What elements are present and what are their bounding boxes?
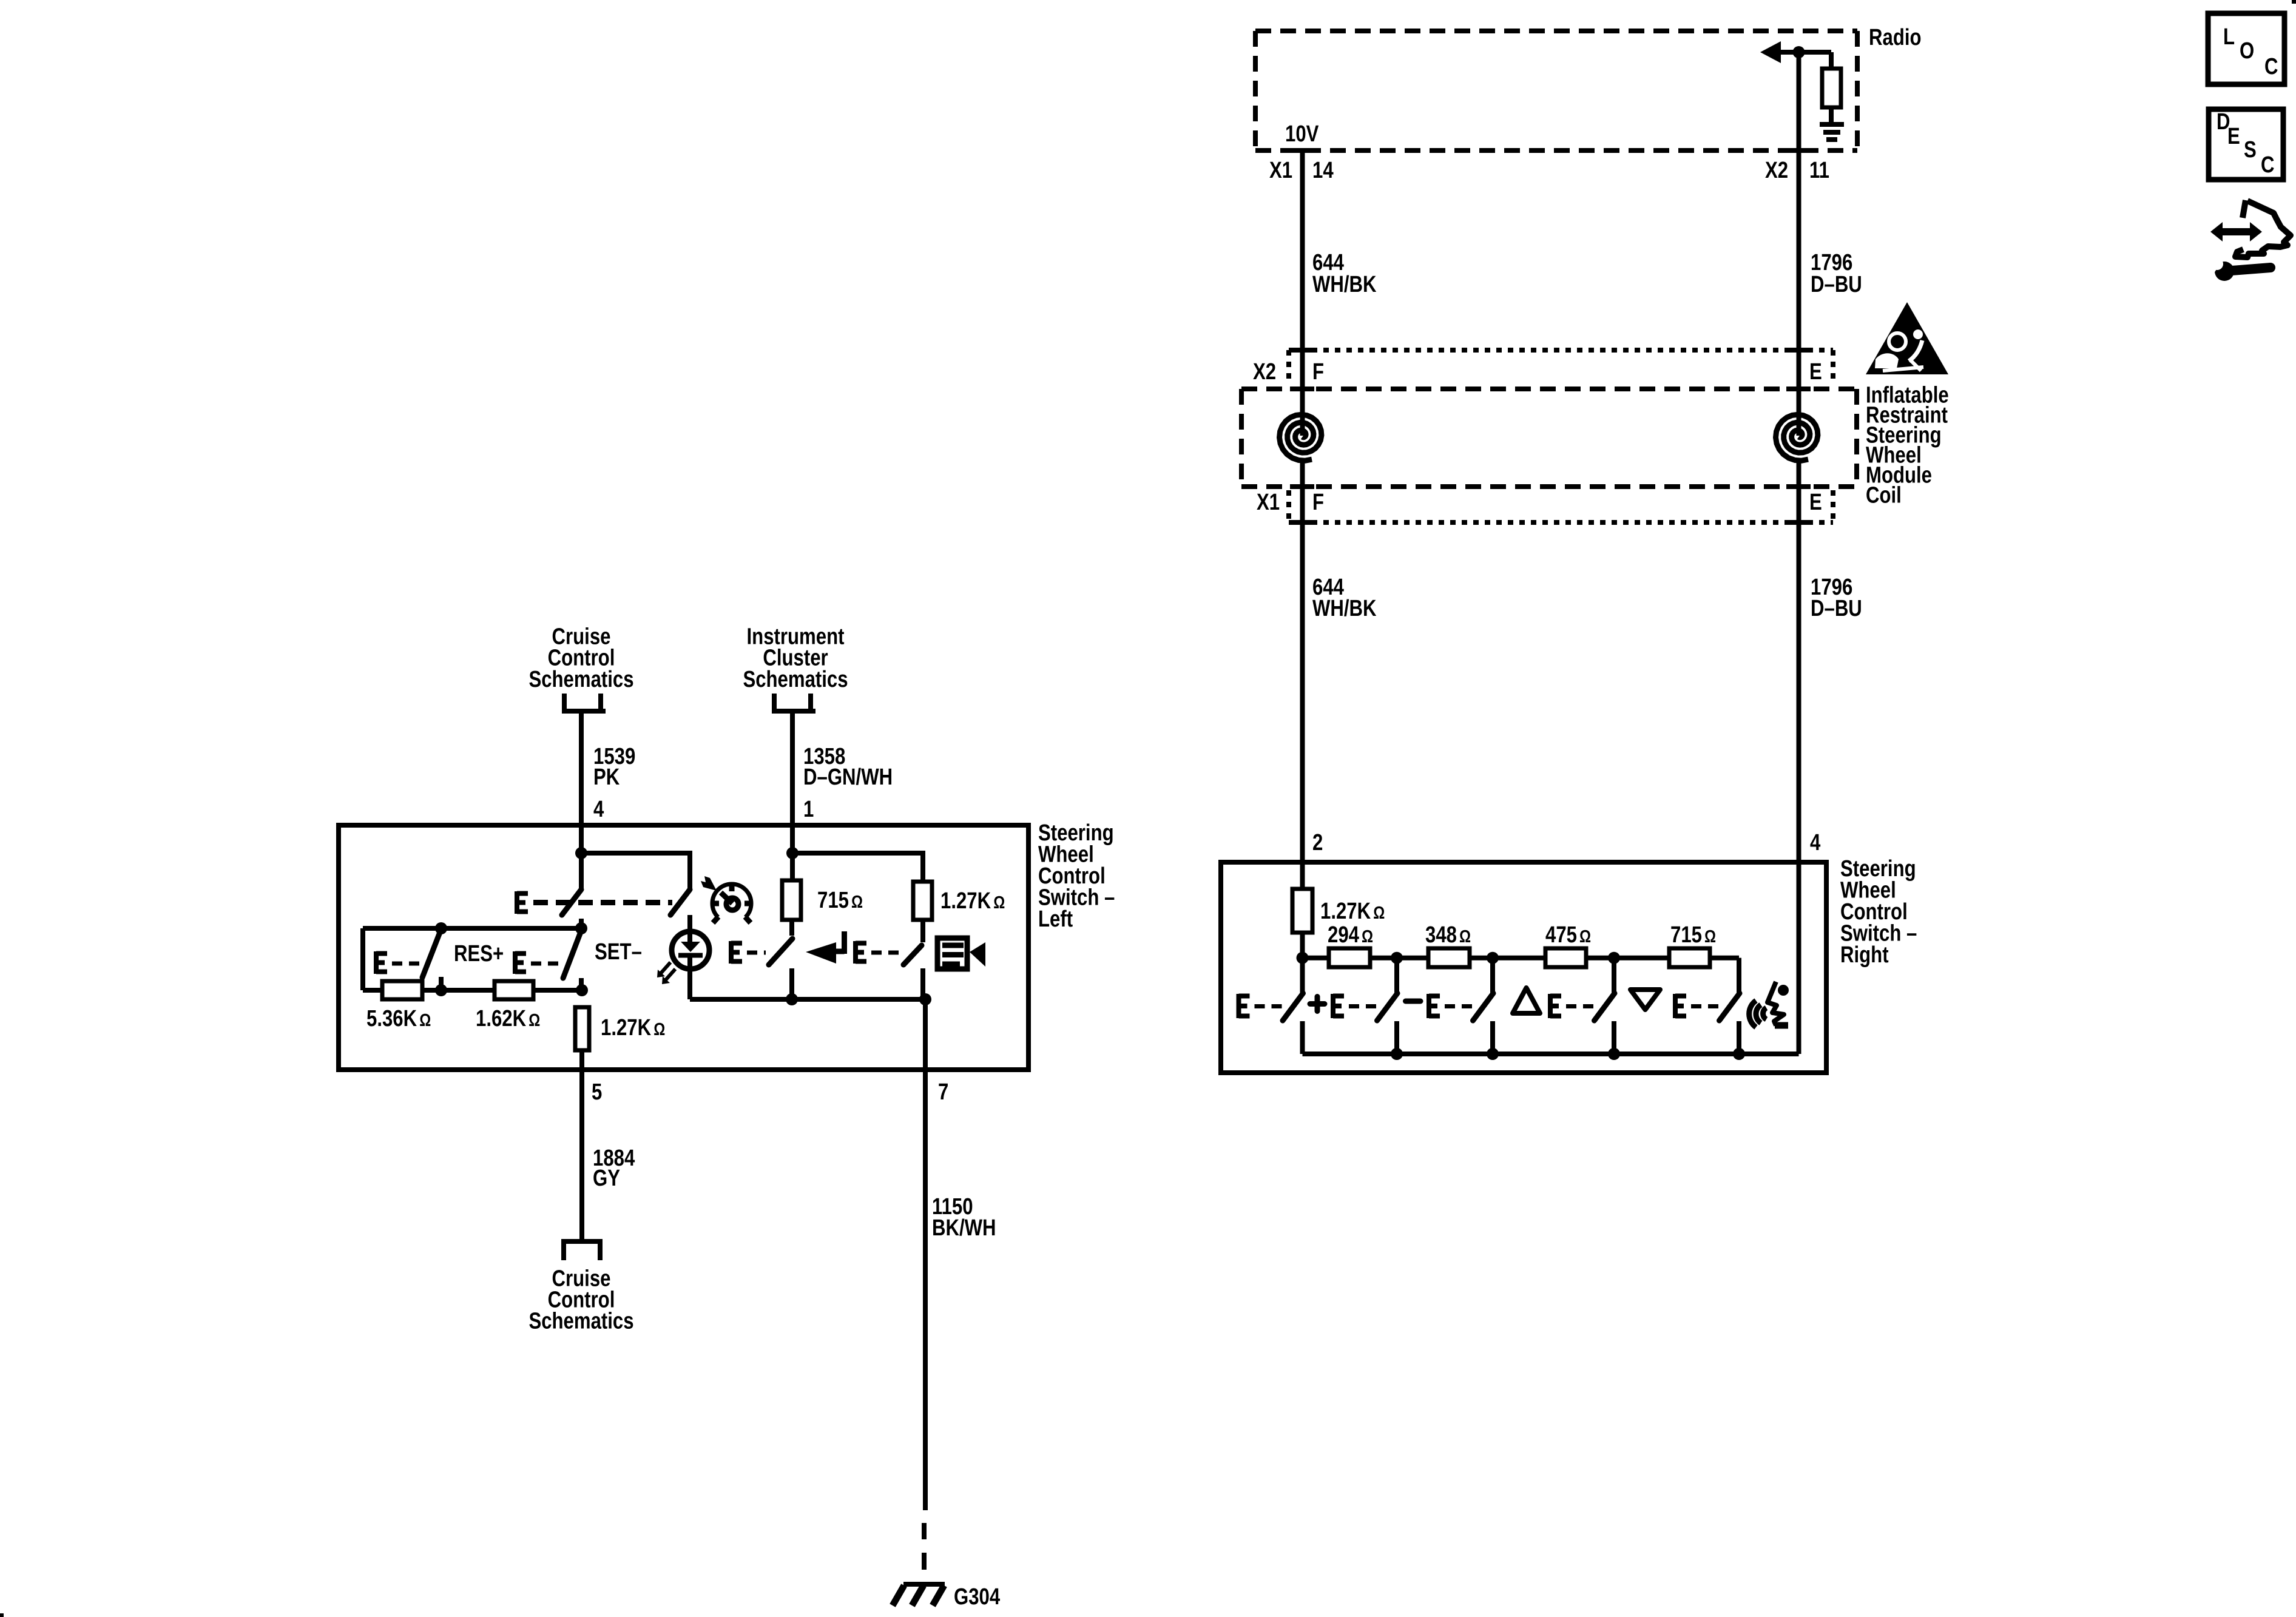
wire resistor to ground (1829, 107, 1834, 124)
airbag warning triangle (1866, 302, 1948, 374)
switch S5 voice: blade (1720, 993, 1740, 1021)
switch S5 voice: E actuator (1675, 994, 1686, 1018)
icon minus (volume down) (1406, 999, 1421, 1004)
wire 644 WH/BK segment 1 (radio X1-14 to coil X2-F) (1300, 150, 1305, 391)
svg-text:X1: X1 (1257, 490, 1280, 515)
svg-text:2: 2 (1312, 830, 1323, 856)
svg-text:294Ω: 294Ω (1328, 922, 1373, 948)
resistor 1.27K (mute branch) (913, 882, 932, 920)
Steering Wheel Control Switch - Right box (1221, 862, 1826, 1073)
wire resistor to bus (1300, 933, 1305, 957)
junction SET top (575, 922, 587, 934)
resistor 294 ohm (1329, 948, 1370, 967)
icon plus (volume up) (1310, 997, 1325, 1011)
svg-text:BK/WH: BK/WH (932, 1215, 996, 1241)
wire radio internal horizontal (1778, 50, 1831, 55)
junction radio node (1793, 46, 1805, 58)
svg-text:Right: Right (1840, 942, 1889, 968)
wire dashed segment to ground (922, 1523, 927, 1585)
switch mute blade (769, 939, 792, 965)
junction RES+ top (435, 922, 447, 934)
tick wire crossing lower dotted line (1290, 520, 1314, 525)
ground G304 (chassis) (893, 1584, 945, 1605)
icon triangle down (seek down) (1630, 990, 1660, 1010)
cruise master switch pole A blade (562, 890, 581, 915)
wire 1358 D-GN/WH (pin 1) (790, 711, 795, 825)
switch RES+ blade (422, 931, 441, 977)
switch S3 seek up: lower stub (1490, 1021, 1495, 1054)
svg-text:1.62KΩ: 1.62KΩ (476, 1006, 540, 1031)
wire 1796 D-BU segment 2 (coil E to right switch pin 4) (1797, 522, 1801, 1054)
bottom bus (right box) (1303, 1052, 1799, 1056)
svg-text:1: 1 (803, 797, 814, 822)
wire pin 7 inside box (923, 999, 928, 1070)
coil right (1776, 414, 1818, 461)
svg-text:1.27KΩ: 1.27KΩ (940, 888, 1005, 914)
svg-text:D–BU: D–BU (1811, 272, 1862, 297)
connector X2 (dotted) of coil module (1289, 348, 1833, 353)
resistor 348 ohm (1428, 948, 1470, 967)
tick wire crossing coil box bottom (1290, 484, 1314, 489)
svg-text:475Ω: 475Ω (1545, 922, 1591, 948)
switch S4 seek down: blade (1595, 993, 1615, 1021)
cruise master switch pole B blade (670, 890, 690, 915)
svg-text:GY: GY (593, 1166, 620, 1191)
DESC reference box (2209, 109, 2283, 180)
svg-text:Schematics: Schematics (743, 667, 848, 692)
arrow (signal to radio) (1760, 41, 1781, 63)
svg-text:715Ω: 715Ω (817, 888, 863, 913)
svg-text:Schematics: Schematics (528, 1309, 633, 1334)
switch S3 seek up: feed stub (1490, 958, 1495, 993)
resistor 1.62K (495, 981, 533, 999)
Radio box (dashed outline) (1255, 29, 1857, 33)
tick wire crossings on radio box bottom edge (1290, 148, 1314, 153)
wire 715 to switch (789, 920, 794, 936)
tick wire crossing coil box top (1290, 387, 1314, 391)
svg-text:1.27KΩ: 1.27KΩ (1320, 899, 1385, 924)
switch mute E actuator (731, 941, 742, 964)
svg-text:C: C (2261, 152, 2275, 178)
switch S4 seek down: lower stub (1612, 1021, 1616, 1054)
wire 1884 GY (pin 5 to cruise control schematics) (579, 1070, 584, 1239)
junction pin7 top (919, 993, 931, 1005)
top resistor bus (1303, 956, 1740, 960)
switch RES+ E actuator (376, 951, 387, 974)
switch S5 voice: feed stub (1737, 958, 1741, 993)
icon speedometer (cruise) (701, 876, 751, 923)
svg-text:Coil: Coil (1866, 483, 1902, 508)
junction n2 (1391, 952, 1403, 964)
svg-text:G304: G304 (954, 1584, 1001, 1610)
junction bottom n4 (1608, 1048, 1620, 1060)
cruise master switch pole A lower stub (579, 919, 584, 928)
icon mute/voice (bars with left triangle) (937, 938, 985, 969)
svg-text:5: 5 (592, 1079, 602, 1105)
icon triangle up (seek up) (1513, 988, 1540, 1013)
service/connector icon (double arrow, outline, wrench) (2203, 200, 2291, 281)
off-page bracket (cruise control) (562, 694, 606, 711)
switch S2 volume down: lower stub (1394, 1021, 1399, 1054)
wire 1539 PK (pin 4) (579, 711, 584, 825)
svg-text:7: 7 (938, 1079, 948, 1105)
svg-text:O: O (2240, 38, 2254, 64)
svg-text:E: E (1809, 490, 1822, 515)
junction bottom n3 (1487, 1048, 1499, 1060)
resistor radio pull-up (1822, 69, 1841, 107)
svg-text:E: E (1809, 359, 1822, 385)
wire 1.27K to switch (920, 920, 925, 942)
resistor 1.27K (cruise) (575, 1007, 589, 1050)
cruise master switch E actuator (517, 891, 528, 914)
switch S1 volume up: E actuator (1239, 994, 1250, 1018)
resistor 475 ohm (1545, 948, 1586, 967)
wire crossbar to second pole (581, 853, 690, 890)
cruise master gang dashed line (533, 900, 672, 905)
svg-text:4: 4 (1810, 830, 1821, 856)
svg-text:D–BU: D–BU (1811, 596, 1862, 621)
svg-text:5.36KΩ: 5.36KΩ (366, 1006, 431, 1031)
switch voice lower stub (920, 968, 925, 999)
svg-text:Left: Left (1038, 906, 1073, 932)
wire crossbar to 1.27K branch (792, 853, 923, 882)
switch S2 volume down: feed stub (1394, 958, 1399, 993)
page artifact bottom-left (0, 1613, 4, 1617)
switch S1 volume up: lower stub (1300, 1021, 1305, 1054)
junction SET bottom (576, 984, 588, 996)
wire 644 WH/BK segment 2 (coil X1-F to right switch pin 2) (1300, 522, 1305, 889)
wire through right coil (1797, 391, 1801, 436)
LOC reference box (2208, 13, 2284, 84)
wire to radio resistor (1829, 52, 1834, 69)
svg-text:E: E (2227, 124, 2240, 149)
tick wire crossing upper dotted line (1290, 348, 1314, 353)
svg-text:S: S (2244, 137, 2257, 163)
junction resistor mid (435, 984, 447, 996)
svg-text:1.27KΩ: 1.27KΩ (601, 1015, 665, 1041)
LED feed stub (687, 915, 692, 931)
switch mute lower stub (789, 968, 794, 999)
switch S2 volume down: E actuator (1333, 994, 1344, 1018)
svg-text:4: 4 (593, 797, 604, 822)
junction pin4 node (575, 847, 587, 859)
off-page bracket (instrument cluster) (772, 694, 815, 711)
coil left (steering wheel module coil) (1280, 414, 1322, 461)
switch voice E actuator (left box) (856, 941, 866, 964)
svg-text:14: 14 (1312, 158, 1334, 183)
Steering Wheel Control Switch - Left box (339, 825, 1028, 1070)
svg-text:C: C (2264, 54, 2278, 79)
wire resistor to pin 5 (579, 1050, 584, 1070)
junction n3 (1487, 952, 1499, 964)
switch S2 volume down: blade (1377, 993, 1398, 1021)
switch S3 seek up: E actuator (1429, 994, 1440, 1018)
svg-text:F: F (1312, 359, 1324, 385)
svg-text:X2: X2 (1765, 158, 1788, 183)
svg-text:Radio: Radio (1869, 25, 1922, 50)
svg-text:D–GN/WH: D–GN/WH (803, 765, 893, 790)
LED light arrows (657, 962, 675, 984)
switch S1 volume up: blade (1283, 993, 1303, 1021)
wire 1796 D-BU segment 1 (radio X2-11 to coil E) (1797, 52, 1801, 391)
wire pin4 into box (579, 825, 584, 889)
wire 1150 BK/WH (pin 7 to G304) (923, 1070, 928, 1510)
switch SET- lower stub (579, 978, 584, 990)
switch RES+ lower stub (439, 977, 444, 990)
icon previous/back (arrow with bar) (806, 931, 845, 964)
svg-text:PK: PK (593, 765, 620, 790)
svg-text:X2: X2 (1253, 359, 1276, 385)
switch SET- E actuator (515, 951, 526, 974)
resistor R 1.27K (right box) (1292, 889, 1312, 933)
junction bottom n5 (1733, 1048, 1745, 1060)
ground (radio internal) (1820, 122, 1844, 127)
connector X1 (dotted) of coil module (1289, 520, 1833, 525)
resistor rail bottom (363, 988, 582, 993)
switch S3 seek up: blade (1473, 993, 1494, 1021)
svg-text:X1: X1 (1269, 158, 1292, 183)
Inflatable Restraint Steering Wheel Module Coil box (dashed) (1241, 387, 1857, 391)
resistor 715 ohm (left box) (782, 880, 801, 920)
svg-text:715Ω: 715Ω (1670, 922, 1716, 948)
junction mute bottom (786, 993, 798, 1005)
svg-text:348Ω: 348Ω (1425, 922, 1471, 948)
junction n1 (1297, 952, 1309, 964)
junction pin1 node (786, 847, 799, 859)
LED indicator (cruise lamp) (672, 931, 709, 971)
svg-text:Schematics: Schematics (528, 667, 633, 692)
switch voice blade (left box) (903, 945, 922, 965)
junction bottom n2 (1391, 1048, 1403, 1060)
svg-text:10V: 10V (1285, 121, 1319, 147)
switch S1 volume up: feed stub (1300, 958, 1305, 993)
svg-text:11: 11 (1809, 158, 1829, 183)
wire through left coil (1300, 391, 1305, 436)
lower bus (left box) (690, 997, 925, 1002)
LED to bus wire (687, 971, 692, 999)
wire pin1 into box (790, 825, 795, 880)
switch SET- blade (563, 932, 581, 978)
off-page bracket (cruise control bottom) (561, 1241, 603, 1260)
svg-text:SET–: SET– (595, 939, 642, 965)
icon voice recognition (person with sound waves) (1749, 982, 1789, 1027)
switch S4 seek down: E actuator (1550, 994, 1561, 1018)
resistor 715 ohm (right box) (1669, 948, 1710, 967)
resistor 5.36K (382, 981, 422, 999)
svg-text:WH/BK: WH/BK (1312, 272, 1377, 297)
svg-text:L: L (2223, 24, 2235, 50)
RES+ / SET- top rail (363, 926, 581, 931)
svg-text:F: F (1312, 490, 1324, 515)
svg-text:RES+: RES+ (454, 941, 504, 967)
left loop vertical (360, 928, 365, 990)
page artifact top-right (2292, 0, 2296, 4)
svg-text:WH/BK: WH/BK (1312, 596, 1377, 621)
wire bus corner to switch 5 (1737, 958, 1741, 993)
switch S4 seek down: feed stub (1612, 958, 1616, 993)
junction n4 (1608, 952, 1620, 964)
switch S5 voice: lower stub (1737, 1021, 1741, 1054)
